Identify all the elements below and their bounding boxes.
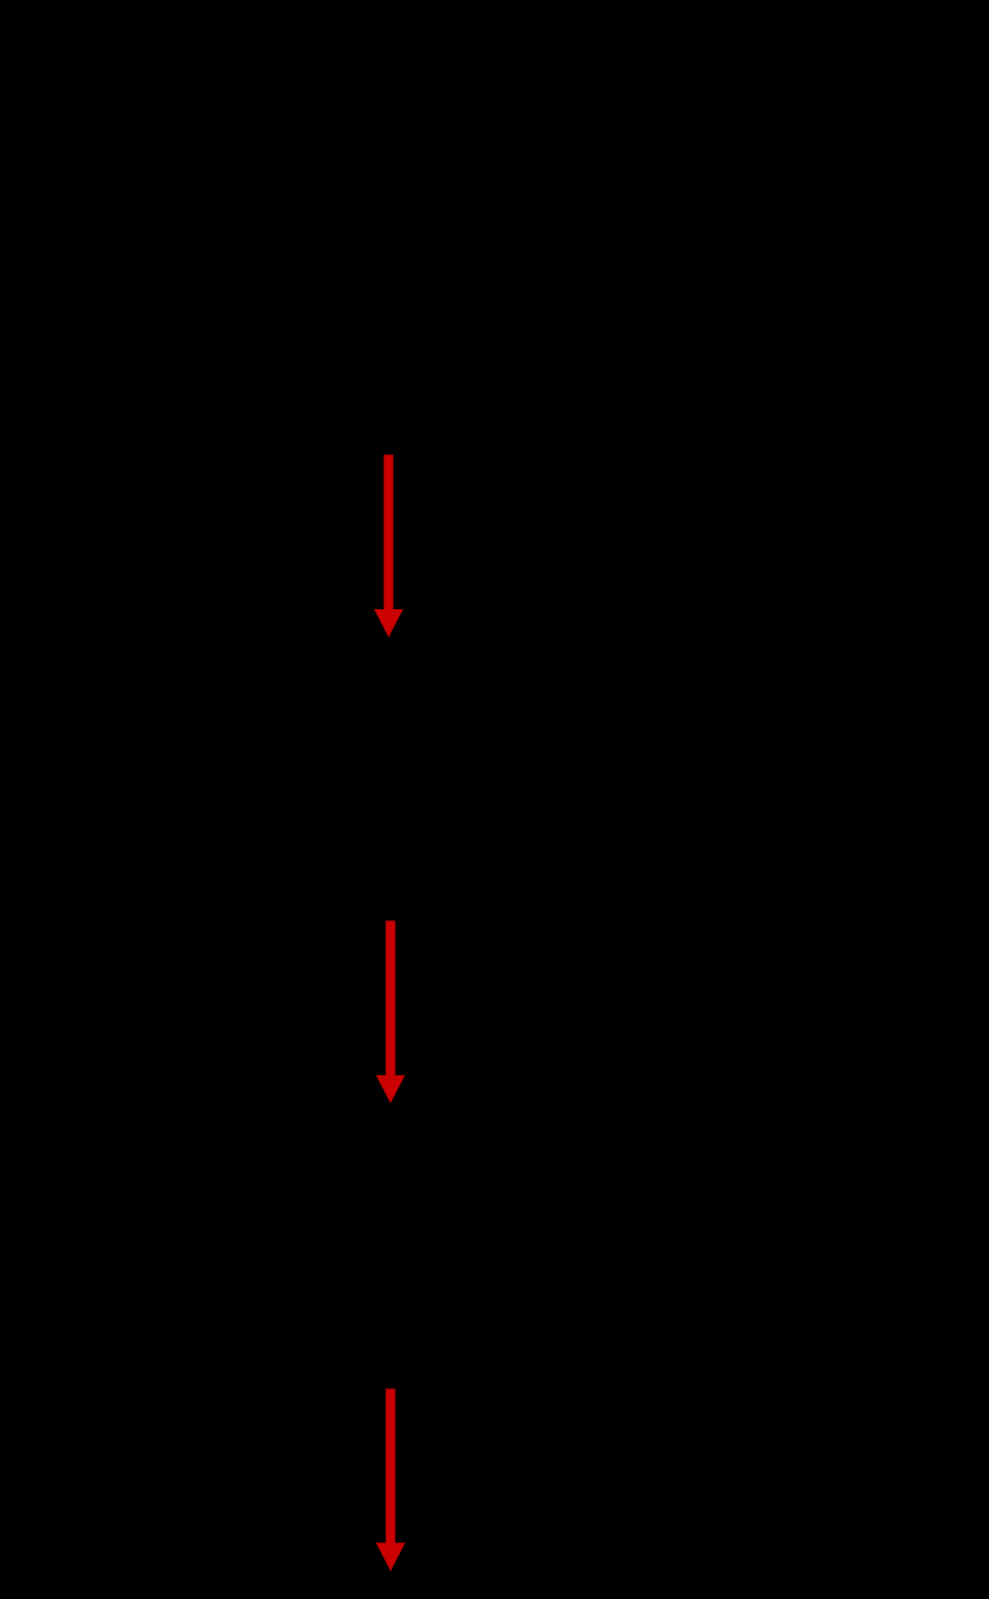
arrow 3 (edge from node 3 to node 4) bbox=[377, 1389, 405, 1571]
arrow 2 (edge from node 2 to node 3) bbox=[376, 921, 404, 1103]
arrow 1 (edge from node 1 to node 2) bbox=[375, 455, 403, 637]
